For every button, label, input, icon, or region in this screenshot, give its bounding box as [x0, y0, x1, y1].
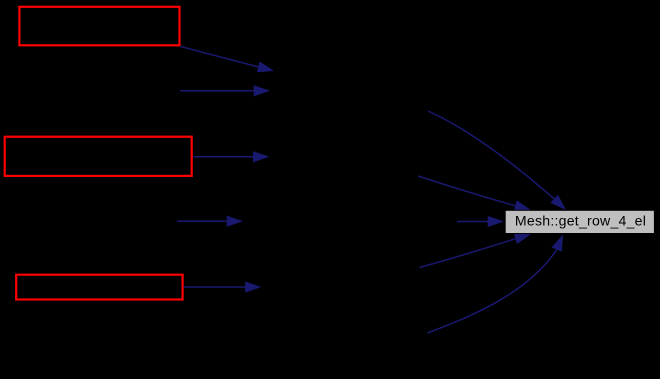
edge M3->target: [457, 216, 504, 227]
edge M5->target (lower curve): [428, 235, 564, 334]
edge M2->target: [418, 176, 531, 211]
caller node box1 (truncated, red border): [19, 7, 179, 46]
edge hidden caller n2->M1: [180, 85, 270, 96]
caller node box3 (truncated, red border): [16, 275, 182, 300]
edge M4->target: [420, 233, 532, 267]
edge M1->target (upper curve): [428, 111, 566, 210]
edge box2->M2: [194, 151, 270, 162]
svg-text:Mesh::get_row_4_el: Mesh::get_row_4_el: [515, 213, 646, 229]
caller node box2 (truncated, red border): [5, 137, 192, 176]
edge box1->M1: [180, 46, 274, 72]
target node Mesh::get_row_4_el (grey filled): [505, 210, 654, 233]
edge hidden caller n4->M3: [177, 216, 243, 227]
edge box3->M4: [184, 281, 262, 292]
